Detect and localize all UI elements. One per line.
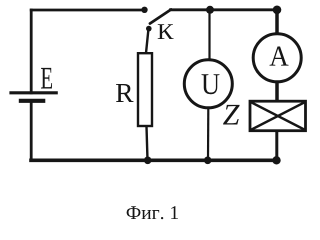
switch K blade xyxy=(150,10,171,24)
node dot bottom voltmeter branch xyxy=(204,157,212,165)
label E xyxy=(41,68,52,89)
load crossed box xyxy=(250,101,306,131)
caption Fig. 1 xyxy=(127,206,178,219)
switch fixed contact dot xyxy=(141,7,147,13)
battery E short plate xyxy=(19,99,46,103)
label R xyxy=(116,84,134,102)
voltmeter U circle xyxy=(184,60,232,108)
bottom rail wire xyxy=(31,159,277,163)
wire top middle segment (switch to right corner) xyxy=(171,8,278,11)
wire ammeter to crossed box xyxy=(275,83,279,101)
wire left vertical upper (top rail to battery) xyxy=(30,10,33,93)
label Z (load impedance) xyxy=(223,105,240,125)
wire top rail down to voltmeter xyxy=(208,10,210,60)
wire top-left horizontal (battery to switch contact) xyxy=(31,9,144,12)
wire switch pivot to resistor top xyxy=(146,29,149,53)
wire top right node down to ammeter xyxy=(275,10,279,33)
ammeter A circle xyxy=(253,34,301,82)
wire left vertical lower (battery to bottom rail) xyxy=(30,101,33,160)
node junction dot top at voltmeter branch xyxy=(206,6,214,14)
node dot bottom resistor branch xyxy=(144,157,152,165)
label U xyxy=(202,74,220,94)
resistor R body xyxy=(138,53,152,126)
wire crossed box to bottom rail xyxy=(275,131,278,160)
node junction dot top right xyxy=(273,6,282,15)
label A xyxy=(270,46,289,65)
label K xyxy=(158,24,174,39)
switch pivot dot xyxy=(146,26,152,32)
node dot bottom right branch xyxy=(272,156,280,164)
wire resistor bottom to bottom rail xyxy=(147,127,148,161)
battery E long plate xyxy=(9,91,57,94)
wire voltmeter bottom to bottom rail xyxy=(207,109,210,161)
